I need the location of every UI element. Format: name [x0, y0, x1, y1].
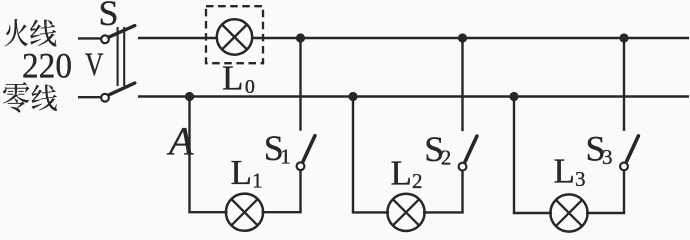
- branch 3 wire: neutral down: [513, 97, 515, 214]
- svg-text:2: 2: [441, 146, 452, 170]
- switch S1 blade: [303, 136, 315, 162]
- branch 3 wire: bottom right: [586, 212, 625, 214]
- switch S3 blade: [627, 136, 639, 162]
- junction dot live/S1: [296, 33, 305, 42]
- svg-text:1: 1: [252, 169, 263, 193]
- switch S bottom terminal: [101, 94, 109, 102]
- switch S bottom blade: [109, 83, 135, 95]
- junction dot live/S3: [619, 33, 628, 42]
- branch 1 wire: up to switch S1: [299, 170, 301, 212]
- switch S1 terminal: [297, 162, 305, 170]
- junction dot neutral/branch1 (node A): [185, 92, 194, 101]
- switch S top terminal: [101, 35, 109, 43]
- switch S2 terminal: [459, 163, 467, 171]
- wire neutral-left stub: [78, 96, 101, 98]
- lamp L0: [217, 19, 252, 54]
- svg-text:3: 3: [575, 167, 586, 191]
- wire live right run: [253, 37, 689, 39]
- branch 2 wire: up to switch S2: [461, 171, 463, 213]
- label xian (live wire char 2): [30, 19, 57, 46]
- branch 1 wire: bottom right: [262, 211, 302, 213]
- branch 2 wire: bottom right: [423, 211, 464, 213]
- svg-text:L: L: [222, 59, 243, 98]
- switch S link bar right: [123, 27, 125, 86]
- junction dot live/S2: [458, 33, 467, 42]
- label huo (fire/live wire char 1): [5, 19, 28, 47]
- svg-text:L: L: [391, 154, 412, 193]
- lamp L1: [226, 194, 263, 231]
- dashed box around L0: [206, 6, 263, 63]
- svg-text:L: L: [231, 153, 252, 192]
- lamp L2: [387, 194, 424, 231]
- label xian (neutral wire char 2): [32, 84, 58, 111]
- branch 1 wire: bottom left: [188, 211, 227, 213]
- branch 3 wire: bottom left: [513, 212, 552, 214]
- branch 1 wire: neutral down: [188, 97, 190, 213]
- svg-text:1: 1: [280, 145, 291, 169]
- wire live-left stub: [78, 37, 101, 39]
- wire live to lamp L0: [138, 37, 216, 39]
- label ling (neutral wire char 1): [3, 82, 30, 112]
- svg-text:0: 0: [245, 76, 255, 98]
- svg-text:3: 3: [602, 145, 613, 169]
- lamp L3: [550, 194, 587, 231]
- svg-text:V: V: [85, 47, 104, 83]
- junction dot neutral/branch2: [348, 92, 357, 101]
- svg-text:2: 2: [412, 169, 423, 193]
- switch S top blade: [109, 26, 135, 38]
- branch 3 wire: switch up to live: [623, 38, 625, 131]
- junction dot neutral/branch3: [509, 92, 518, 101]
- branch 2 wire: switch up to live: [461, 38, 463, 131]
- svg-text:220: 220: [22, 46, 72, 86]
- switch S2 blade: [465, 136, 477, 162]
- wire neutral right run: [138, 95, 689, 97]
- branch 2 wire: bottom left: [352, 211, 389, 213]
- branch 1 wire: switch up to live: [299, 38, 301, 131]
- branch 2 wire: neutral down: [352, 97, 354, 213]
- switch S3 terminal: [620, 163, 628, 171]
- switch S link bar left: [117, 27, 119, 86]
- svg-text:L: L: [554, 152, 575, 191]
- branch 3 wire: up to switch S3: [623, 170, 625, 213]
- svg-text:S: S: [99, 0, 119, 33]
